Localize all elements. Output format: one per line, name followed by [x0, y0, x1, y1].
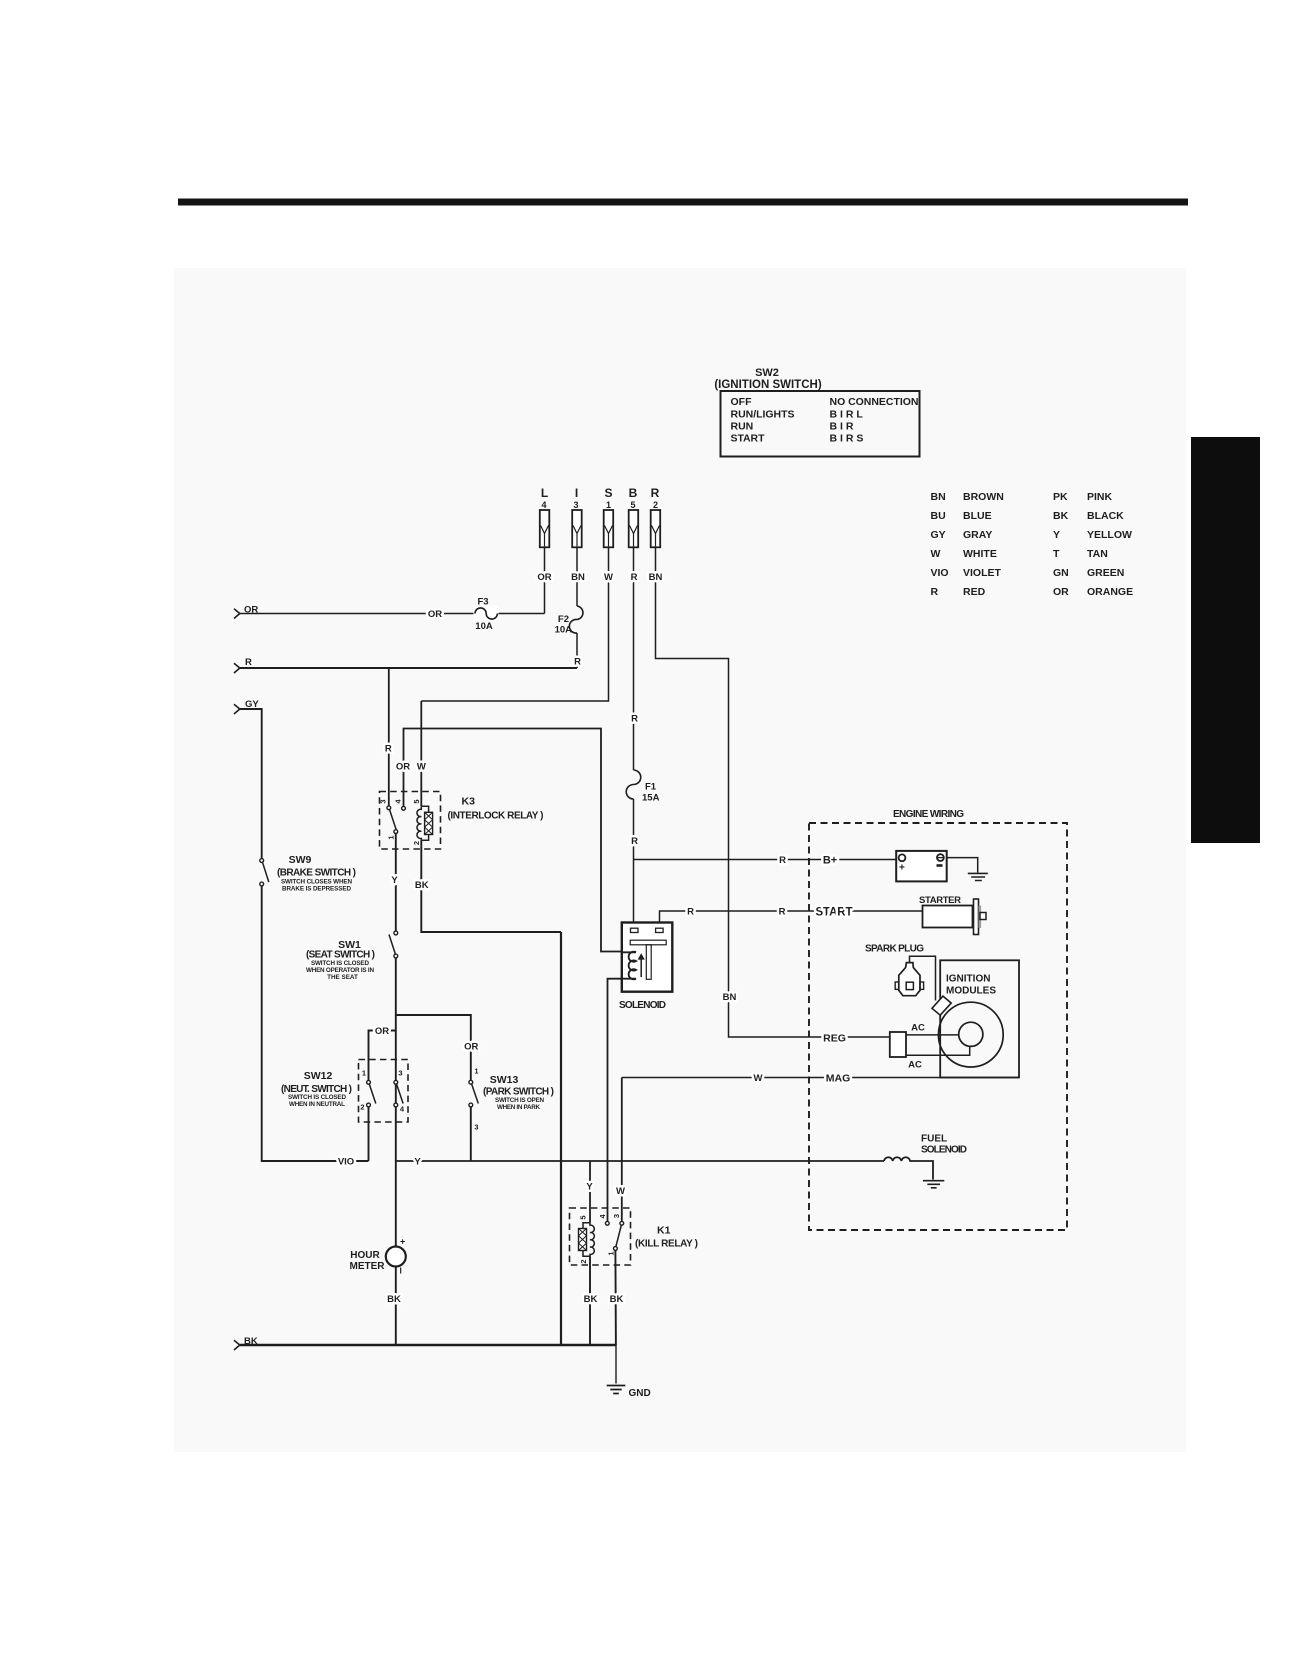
wire: R bus — [240, 667, 577, 669]
svg-text:RUN/LIGHTS: RUN/LIGHTS — [731, 408, 795, 420]
svg-text:R: R — [687, 907, 694, 918]
svg-text:Y: Y — [586, 1182, 593, 1193]
regulator block — [890, 1032, 906, 1057]
svg-text:F2: F2 — [558, 614, 569, 625]
B+ label — [823, 855, 837, 867]
svg-text:(KILL RELAY ): (KILL RELAY ) — [635, 1239, 698, 1250]
spark plug — [895, 963, 923, 996]
svg-text:2: 2 — [412, 841, 421, 845]
fuel solenoid coil — [884, 1157, 933, 1179]
wire: SW9 down to VIO bus — [262, 886, 369, 1161]
svg-text:SWITCH CLOSES WHEN: SWITCH CLOSES WHEN — [281, 879, 352, 886]
wire: kill relay W riser from MAG bus — [621, 1078, 623, 1222]
svg-text:15A: 15A — [642, 793, 660, 804]
connector pin I (terminal 3) — [572, 486, 582, 547]
wire: battery negative to ground — [947, 858, 978, 873]
svg-text:SW9: SW9 — [289, 854, 312, 866]
svg-text:THE SEAT: THE SEAT — [327, 974, 358, 981]
hour meter — [350, 1237, 406, 1276]
wire label OR (K3 pin4 riser) — [396, 762, 410, 773]
svg-text:10A: 10A — [475, 621, 493, 632]
wire: hour meter stem — [395, 1161, 397, 1345]
K1 pin 3 and blade to pin 1 — [606, 1214, 623, 1256]
K3 coil (pins 5-2) — [412, 799, 433, 845]
svg-text:BK: BK — [610, 1294, 624, 1305]
svg-text:B I R L: B I R L — [830, 408, 864, 420]
K3 switch blade 3-1 — [387, 810, 398, 840]
svg-text:W: W — [604, 572, 613, 583]
harness arrow R — [234, 657, 252, 673]
wire: Y bus to fuel solenoid — [396, 1160, 884, 1162]
wire label R (above F1) — [631, 714, 638, 725]
svg-text:START: START — [816, 907, 853, 919]
svg-text:SWITCH IS OPEN: SWITCH IS OPEN — [495, 1097, 544, 1104]
svg-text:B: B — [629, 486, 638, 500]
wire: K1 coil riser from Y bus — [589, 1161, 591, 1223]
wire: SW13 down to Y bus — [470, 1107, 472, 1161]
wire label OR (park branch) — [464, 1042, 478, 1053]
svg-text:W: W — [754, 1073, 763, 1084]
top rule bar — [178, 199, 1188, 206]
wire: pin B down to solenoid (through F1) — [633, 547, 635, 921]
fuse F3 — [474, 597, 499, 633]
svg-text:I: I — [400, 1266, 402, 1276]
starter motor — [923, 899, 987, 935]
wire: K3 pin2 BK down and right to kill-relay drop — [421, 840, 561, 932]
svg-text:ORANGE: ORANGE — [1087, 586, 1133, 598]
ground symbol (fuel solenoid) — [923, 1181, 944, 1188]
MAG label — [826, 1073, 851, 1085]
engine wiring dashed box — [809, 823, 1067, 1230]
svg-text:(SEAT SWITCH ): (SEAT SWITCH ) — [306, 950, 375, 961]
wire label R (pin B) — [631, 572, 638, 583]
wire: solenoid right terminal up to START bus — [660, 911, 923, 922]
svg-text:10A: 10A — [555, 625, 573, 636]
svg-text:ENGINE WIRING: ENGINE WIRING — [893, 809, 964, 820]
wire label BK (K1 coil) — [584, 1294, 598, 1305]
svg-text:IGNITION: IGNITION — [946, 974, 990, 985]
svg-text:3: 3 — [573, 500, 578, 510]
svg-text:5: 5 — [579, 1215, 588, 1219]
wire label R (above R bus at F2) — [574, 657, 581, 668]
svg-text:3: 3 — [379, 799, 388, 803]
wire: B+ bus from F1 riser to battery — [634, 859, 897, 861]
SW9 labels — [277, 854, 356, 893]
SW1 labels — [306, 939, 375, 981]
svg-text:VIO: VIO — [931, 567, 949, 579]
connector pin S (terminal 1) — [604, 486, 614, 547]
FUEL SOLENOID label — [921, 1134, 967, 1156]
K3 pin 3 — [379, 799, 391, 809]
svg-text:SW13: SW13 — [490, 1074, 519, 1086]
svg-text:3: 3 — [612, 1214, 621, 1218]
svg-text:TAN: TAN — [1087, 548, 1108, 560]
IGNITION MODULES label — [946, 974, 996, 997]
wire: pin L to OR bus — [544, 547, 546, 613]
wire label BN (pin R) — [649, 572, 663, 583]
ground symbol GND — [607, 1386, 651, 1400]
kill relay K1 dashed box — [570, 1208, 631, 1265]
wire label OR (pin L) — [537, 572, 551, 583]
wire label R (start bus left) — [687, 907, 694, 918]
svg-text:RUN: RUN — [731, 421, 754, 433]
svg-text:1: 1 — [474, 1067, 478, 1076]
wire label R (K3 pin3 riser) — [385, 744, 392, 755]
wire label W (MAG bus) — [754, 1073, 763, 1084]
wire: SW12 pin2 to VIO bus — [368, 1107, 370, 1161]
svg-text:(BRAKE SWITCH ): (BRAKE SWITCH ) — [277, 868, 356, 879]
wire: GY lead down to brake switch — [240, 709, 262, 859]
svg-text:GND: GND — [629, 1388, 651, 1399]
svg-text:5: 5 — [412, 799, 421, 803]
svg-text:SW12: SW12 — [304, 1070, 333, 1082]
svg-text:SOLENOID: SOLENOID — [619, 1000, 666, 1011]
wire label W (K1 pin3 riser) — [616, 1186, 625, 1197]
wire: branch y1030 to neutral switch pin1 — [369, 1031, 396, 1081]
svg-text:1: 1 — [606, 500, 611, 510]
ignition switch SW2 title — [714, 367, 821, 391]
svg-text:R: R — [385, 744, 392, 755]
svg-text:PINK: PINK — [1087, 491, 1113, 503]
svg-text:VIO: VIO — [338, 1157, 354, 1168]
svg-text:BK: BK — [1053, 510, 1069, 522]
svg-text:SWITCH IS CLOSED: SWITCH IS CLOSED — [288, 1094, 346, 1101]
K1 coil (pins 5-2) — [579, 1215, 595, 1263]
svg-text:R: R — [779, 907, 786, 918]
svg-text:4: 4 — [541, 500, 546, 510]
wire: solenoid coil bottom to K1 pin 4 — [608, 979, 622, 1222]
wire: branch y1015 to park switch — [396, 1015, 471, 1080]
svg-text:R: R — [931, 586, 939, 598]
wire label Y (K1 coil riser) — [586, 1182, 593, 1193]
wire: OR bus — [240, 613, 545, 615]
svg-text:B I R S: B I R S — [830, 433, 864, 445]
svg-text:R: R — [779, 855, 786, 866]
svg-text:+: + — [899, 863, 905, 874]
REG label on bus — [823, 1033, 846, 1045]
svg-text:R: R — [245, 657, 252, 668]
svg-text:BRAKE IS DEPRESSED: BRAKE IS DEPRESSED — [282, 886, 351, 893]
wire label OR (neutral branch) — [375, 1026, 389, 1037]
wire: AC upper — [906, 1023, 959, 1035]
svg-text:BU: BU — [931, 510, 946, 522]
neutral switch SW12 dashed box — [359, 1060, 409, 1123]
wire label Y (on Y bus) — [414, 1157, 421, 1168]
svg-text:OFF: OFF — [731, 396, 753, 408]
battery — [896, 851, 947, 882]
svg-text:BN: BN — [931, 491, 946, 503]
svg-text:YELLOW: YELLOW — [1087, 529, 1132, 541]
wire label W (pin S) — [604, 572, 613, 583]
svg-text:B I R: B I R — [830, 421, 854, 433]
svg-text:AC: AC — [908, 1060, 922, 1071]
park switch SW13 contacts 1-3 — [469, 1067, 479, 1132]
svg-text:AC: AC — [911, 1023, 925, 1034]
svg-text:F3: F3 — [477, 597, 488, 608]
ignition modules box — [940, 960, 1019, 1077]
wire: K1 pin1 to ground bus — [614, 1250, 617, 1345]
svg-text:BROWN: BROWN — [963, 491, 1004, 503]
svg-text:PK: PK — [1053, 491, 1068, 503]
wire: OR link y728 from K3 pin4 riser to solenoid riser — [404, 729, 622, 952]
connector pin B (terminal 5) — [629, 486, 639, 547]
svg-text:I: I — [575, 486, 578, 500]
svg-text:RED: RED — [963, 586, 986, 598]
svg-text:MAG: MAG — [826, 1073, 851, 1085]
starter solenoid box — [622, 923, 673, 992]
START label — [816, 907, 853, 919]
svg-text:1: 1 — [606, 1251, 615, 1255]
wire: GND stem — [615, 1345, 617, 1384]
svg-text:GREEN: GREEN — [1087, 567, 1124, 579]
svg-text:BN: BN — [571, 572, 585, 583]
svg-text:BLACK: BLACK — [1087, 510, 1124, 522]
svg-text:BN: BN — [649, 572, 663, 583]
connector pin L (terminal 4) — [540, 486, 550, 547]
ignition switch SW2 truth table — [721, 391, 920, 457]
harness arrow BK — [234, 1336, 258, 1350]
wire: BK ground bus — [240, 1344, 616, 1346]
STARTER label — [919, 895, 961, 906]
svg-text:R: R — [631, 572, 638, 583]
svg-text:R: R — [574, 657, 581, 668]
SOLENOID label — [619, 1000, 666, 1011]
K1 pin 4 — [598, 1214, 609, 1226]
svg-text:W: W — [417, 762, 426, 773]
scan background tint — [174, 268, 1186, 1452]
svg-text:F1: F1 — [645, 782, 657, 793]
wire label BN (on BN riser) — [723, 992, 737, 1003]
wire color legend — [931, 491, 1134, 598]
harness arrow OR — [234, 605, 258, 619]
svg-text:OR: OR — [428, 609, 442, 620]
svg-text:BK: BK — [584, 1294, 598, 1305]
brake switch SW9 — [260, 859, 269, 886]
connector pin R (terminal 2) — [651, 486, 661, 547]
SW12 contacts 3-4 (on main stem) — [394, 1069, 405, 1114]
svg-text:WHEN OPERATOR IS IN: WHEN OPERATOR IS IN — [306, 967, 374, 974]
svg-text:Y: Y — [414, 1157, 421, 1168]
wire label R (start bus right) — [779, 907, 786, 918]
svg-text:MODULES: MODULES — [946, 986, 996, 997]
svg-text:OR: OR — [537, 572, 551, 583]
svg-text:REG: REG — [823, 1033, 846, 1045]
wire label BN (pin I) — [571, 572, 585, 583]
svg-text:OR: OR — [1053, 586, 1069, 598]
svg-text:SW2: SW2 — [755, 367, 779, 379]
wire: pin S down, left along y701 to K3 pin5 riser — [421, 547, 608, 701]
svg-text:WHITE: WHITE — [963, 548, 997, 560]
svg-text:2: 2 — [360, 1103, 364, 1112]
wire: W riser into K3 pin 5 — [420, 701, 422, 806]
svg-text:SPARK PLUG: SPARK PLUG — [865, 944, 924, 955]
svg-text:GRAY: GRAY — [963, 529, 992, 541]
right edge tab bar — [1191, 437, 1260, 843]
wire label VIO — [338, 1157, 354, 1168]
svg-text:OR: OR — [396, 762, 410, 773]
svg-text:START: START — [731, 433, 766, 445]
svg-text:K1: K1 — [657, 1225, 671, 1237]
svg-text:BK: BK — [415, 880, 429, 891]
wire label W (K3 pin5 riser) — [417, 762, 426, 773]
wire: K3 pin1 down to seat switch — [395, 834, 397, 932]
svg-text:S: S — [604, 486, 612, 500]
svg-text:1: 1 — [387, 835, 396, 839]
svg-text:STARTER: STARTER — [919, 895, 961, 906]
ground symbol (battery) — [968, 873, 988, 880]
wire: MAG bus — [622, 1077, 1019, 1079]
svg-text:FUEL: FUEL — [921, 1134, 947, 1145]
svg-text:BN: BN — [723, 992, 737, 1003]
wire: spark plug lead to ignition module — [910, 956, 936, 1000]
svg-text:+: + — [400, 1237, 405, 1247]
K1 label — [635, 1225, 698, 1250]
svg-text:HOUR: HOUR — [350, 1250, 380, 1261]
wire: pin R down, right, down to REG bus — [656, 547, 890, 1037]
SPARK PLUG label — [865, 944, 924, 955]
harness arrow GY — [234, 699, 259, 714]
fuse F2 — [555, 606, 583, 636]
svg-text:W: W — [931, 548, 941, 560]
SW12 labels — [281, 1070, 352, 1108]
svg-text:L: L — [541, 486, 548, 500]
SW13 labels — [483, 1074, 554, 1111]
wire: R bus tap down to K3 pin 3 — [388, 668, 390, 806]
svg-text:5: 5 — [630, 500, 635, 510]
ignition module (diagonal) — [932, 996, 951, 1015]
svg-text:NO CONNECTION: NO CONNECTION — [830, 396, 919, 408]
seat switch SW1 — [389, 931, 398, 958]
wire: AC lower — [906, 1046, 970, 1070]
svg-text:T: T — [1053, 548, 1060, 560]
K3 pin 4 — [394, 799, 406, 811]
svg-text:METER: METER — [350, 1261, 386, 1272]
svg-text:BLUE: BLUE — [963, 510, 992, 522]
svg-text:3: 3 — [398, 1069, 402, 1078]
svg-text:Y: Y — [1053, 529, 1060, 541]
svg-text:GN: GN — [1053, 567, 1069, 579]
svg-text:2: 2 — [653, 500, 658, 510]
svg-text:WHEN IN PARK: WHEN IN PARK — [497, 1104, 540, 1111]
svg-text:W: W — [616, 1186, 625, 1197]
svg-text:R: R — [631, 714, 638, 725]
relay K3 dashed box — [380, 792, 441, 850]
svg-text:(IGNITION SWITCH): (IGNITION SWITCH) — [714, 379, 821, 391]
wire label Y (below K3) — [391, 875, 398, 886]
SW12 contacts 1-2 — [360, 1069, 375, 1112]
svg-text:R: R — [631, 836, 638, 847]
svg-text:OR: OR — [464, 1042, 478, 1053]
wire label BK (below K3) — [415, 880, 429, 891]
wire: BK drop to ground bus — [560, 932, 562, 1345]
ENGINE WIRING label — [893, 809, 964, 820]
svg-text:VIOLET: VIOLET — [963, 567, 1002, 579]
wire: K1 coil bottom to ground bus — [589, 1256, 591, 1345]
svg-text:WHEN IN NEUTRAL: WHEN IN NEUTRAL — [289, 1101, 345, 1108]
svg-text:(INTERLOCK RELAY ): (INTERLOCK RELAY ) — [448, 811, 544, 822]
svg-text:3: 3 — [474, 1123, 478, 1132]
svg-text:1: 1 — [362, 1069, 366, 1078]
wire label R (below F1) — [631, 836, 638, 847]
svg-text:B+: B+ — [823, 855, 837, 867]
wire: SW1 down main stem to Y bus — [395, 958, 397, 1161]
svg-text:2: 2 — [579, 1259, 588, 1263]
wire label BK (K1 pin1) — [610, 1294, 624, 1305]
wire label BK (hour meter) — [387, 1294, 401, 1305]
svg-text:R: R — [651, 486, 660, 500]
fuse F1 — [626, 770, 659, 804]
wire label R (B+ bus) — [779, 855, 786, 866]
wire: pin I down through fuse F2 to R bus — [576, 547, 578, 668]
svg-text:GY: GY — [931, 529, 946, 541]
svg-text:(PARK SWITCH ): (PARK SWITCH ) — [483, 1087, 554, 1098]
flywheel — [938, 1002, 1003, 1067]
wire label OR (on OR bus) — [428, 609, 442, 620]
svg-text:K3: K3 — [462, 796, 476, 808]
svg-text:SOLENOID: SOLENOID — [921, 1145, 967, 1156]
svg-text:OR: OR — [375, 1026, 389, 1037]
svg-text:Y: Y — [391, 875, 398, 886]
svg-text:SWITCH IS CLOSED: SWITCH IS CLOSED — [311, 960, 369, 967]
svg-text:BK: BK — [387, 1294, 401, 1305]
K3 label — [448, 796, 544, 822]
